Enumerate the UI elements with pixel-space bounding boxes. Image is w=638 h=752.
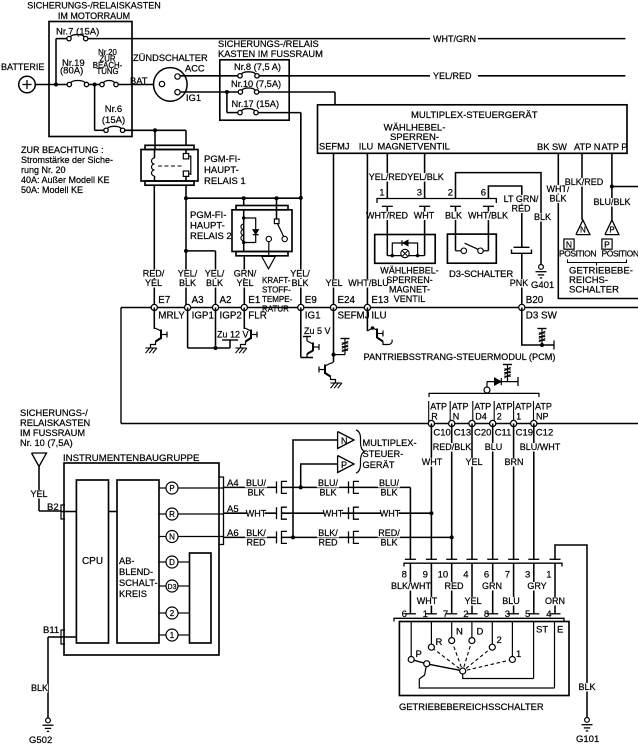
svg-text:RELAIS 1: RELAIS 1 (204, 176, 246, 187)
svg-text:WHT/GRN: WHT/GRN (433, 34, 476, 44)
svg-text:BAT: BAT (130, 76, 148, 86)
svg-text:SICHERUNGS-/: SICHERUNGS-/ (20, 408, 88, 418)
svg-text:ATP: ATP (496, 402, 513, 412)
svg-text:P: P (341, 460, 347, 470)
svg-text:ATP: ATP (452, 402, 469, 412)
svg-text:NP: NP (536, 412, 549, 422)
svg-text:(80A): (80A) (60, 66, 83, 77)
svg-text:ATP: ATP (515, 402, 532, 412)
svg-text:ZUR BEACHTUNG :: ZUR BEACHTUNG : (21, 145, 104, 155)
svg-text:PANTRIEBSSTRANG-STEUERMODUL (P: PANTRIEBSSTRANG-STEUERMODUL (PCM) (364, 352, 556, 362)
svg-text:(15A): (15A) (102, 115, 125, 126)
svg-text:G401: G401 (531, 280, 554, 291)
svg-text:RELAISKASTEN: RELAISKASTEN (20, 418, 90, 428)
svg-text:N: N (341, 436, 348, 446)
svg-text:ATP: ATP (430, 402, 447, 412)
svg-text:C10: C10 (433, 428, 450, 439)
svg-text:RED: RED (318, 538, 338, 548)
svg-text:Zu 12 V: Zu 12 V (217, 330, 249, 340)
svg-text:ORN: ORN (545, 596, 565, 606)
svg-text:GRN/: GRN/ (234, 269, 257, 279)
svg-text:IM FUSSRAUM: IM FUSSRAUM (20, 428, 85, 438)
svg-text:2: 2 (497, 635, 502, 646)
svg-text:YEL: YEL (465, 457, 482, 467)
svg-text:ST: ST (536, 625, 548, 636)
svg-text:GETRIEBEBEREICHSSCHALTER: GETRIEBEBEREICHSSCHALTER (399, 701, 544, 712)
svg-text:IM MOTORRAUM: IM MOTORRAUM (58, 11, 130, 21)
svg-text:MAGNETVENTIL: MAGNETVENTIL (378, 142, 450, 152)
svg-text:YEL/: YEL/ (205, 269, 225, 279)
svg-text:ATP N: ATP N (574, 142, 601, 152)
svg-text:RED/: RED/ (378, 528, 400, 538)
svg-text:Zu 5 V: Zu 5 V (304, 326, 331, 336)
svg-text:P: P (416, 649, 422, 660)
svg-text:E7: E7 (158, 295, 170, 306)
svg-text:PGM-FI-: PGM-FI- (204, 154, 240, 165)
svg-text:WHT: WHT (414, 211, 435, 221)
svg-text:PGM-FI-: PGM-FI- (190, 210, 226, 221)
svg-text:Nr.6: Nr.6 (105, 104, 122, 115)
svg-text:YEL: YEL (325, 278, 342, 288)
svg-text:BLK: BLK (31, 683, 48, 693)
svg-text:N: N (580, 226, 586, 235)
svg-text:BLU/: BLU/ (318, 478, 339, 488)
svg-text:D4: D4 (475, 412, 487, 422)
svg-text:P: P (169, 484, 174, 493)
svg-text:9: 9 (423, 570, 428, 581)
svg-text:WÄHLHEBEL-: WÄHLHEBEL- (380, 266, 439, 276)
svg-text:GERÄT: GERÄT (363, 460, 395, 470)
svg-text:YEL/BLK: YEL/BLK (407, 172, 444, 182)
svg-text:ATP P: ATP P (602, 142, 628, 152)
svg-text:POSITION: POSITION (602, 249, 638, 259)
svg-text:STOFF-: STOFF- (262, 286, 291, 295)
svg-text:BLK/: BLK/ (246, 528, 266, 538)
svg-text:B11: B11 (43, 625, 59, 636)
svg-text:RED/BLK: RED/BLK (433, 442, 472, 452)
svg-text:BLU/: BLU/ (246, 478, 267, 488)
svg-text:SEFMJ: SEFMJ (338, 311, 370, 322)
svg-text:BLK: BLK (578, 682, 595, 692)
svg-text:R: R (436, 637, 443, 648)
svg-text:E13: E13 (371, 295, 389, 306)
svg-text:C19: C19 (516, 428, 533, 439)
svg-text:BLK/: BLK/ (318, 528, 338, 538)
svg-text:ATP: ATP (535, 402, 552, 412)
svg-text:HAUPT-: HAUPT- (190, 221, 225, 232)
svg-text:KRAFT-: KRAFT- (262, 276, 291, 285)
svg-text:IG1: IG1 (305, 311, 321, 322)
svg-text:WHT: WHT (246, 509, 267, 519)
svg-text:40A: Außer Modell KE: 40A: Außer Modell KE (21, 175, 110, 185)
svg-text:BLK/WHT: BLK/WHT (391, 581, 432, 591)
svg-text:N: N (169, 533, 175, 542)
svg-text:ACC: ACC (185, 64, 205, 74)
svg-text:2: 2 (448, 188, 453, 199)
svg-text:STEUER-: STEUER- (363, 449, 404, 459)
svg-text:KASTEN IM FUSSRAUM: KASTEN IM FUSSRAUM (218, 49, 323, 59)
svg-text:A2: A2 (220, 295, 232, 306)
svg-text:7: 7 (505, 570, 510, 581)
svg-text:WHT/RED: WHT/RED (366, 211, 408, 221)
svg-text:GRN: GRN (482, 581, 502, 591)
svg-text:MULTIPLEX-STEUERGERÄT: MULTIPLEX-STEUERGERÄT (411, 110, 538, 121)
svg-text:BATTERIE: BATTERIE (1, 62, 44, 72)
svg-text:SICHERUNGS-/RELAIS: SICHERUNGS-/RELAIS (218, 39, 319, 49)
svg-text:MRLY: MRLY (158, 311, 185, 322)
svg-text:YEL: YEL (236, 278, 253, 288)
svg-text:RED/: RED/ (143, 269, 165, 279)
svg-text:C13: C13 (454, 428, 471, 439)
svg-text:YEL/RED: YEL/RED (433, 71, 472, 81)
svg-text:C11: C11 (495, 428, 512, 439)
svg-text:MAGNET-: MAGNET- (389, 285, 430, 295)
svg-text:BLK: BLK (291, 278, 308, 288)
svg-text:BLK: BLK (247, 488, 264, 498)
svg-text:2: 2 (497, 412, 502, 422)
svg-text:YEL/: YEL/ (178, 269, 198, 279)
svg-text:BLK: BLK (380, 488, 397, 498)
svg-text:BLK: BLK (179, 278, 196, 288)
svg-text:N: N (456, 627, 463, 638)
svg-text:BLK: BLK (445, 211, 462, 221)
svg-text:ZÜNDSCHALTER: ZÜNDSCHALTER (133, 53, 208, 63)
svg-text:B20: B20 (526, 295, 544, 306)
svg-text:WHT: WHT (380, 509, 401, 519)
svg-text:WHT: WHT (422, 457, 443, 467)
svg-text:WHT/BLK: WHT/BLK (468, 211, 508, 221)
svg-text:BLU/WHT: BLU/WHT (520, 442, 561, 452)
svg-text:BLU/: BLU/ (379, 478, 400, 488)
svg-text:YEL: YEL (30, 489, 47, 499)
svg-text:BRN: BRN (504, 457, 523, 467)
svg-text:BLK/RED: BLK/RED (565, 177, 604, 187)
svg-text:rung Nr. 20: rung Nr. 20 (21, 165, 66, 175)
svg-text:1: 1 (516, 649, 521, 660)
svg-text:4: 4 (463, 570, 468, 581)
svg-text:POSITION: POSITION (559, 249, 596, 259)
svg-text:BLK: BLK (206, 278, 223, 288)
svg-text:E: E (557, 625, 563, 636)
svg-text:D3 SW: D3 SW (526, 311, 558, 322)
svg-text:AB-: AB- (119, 556, 135, 566)
svg-text:KREIS: KREIS (119, 589, 147, 599)
svg-text:ILU: ILU (359, 142, 373, 152)
svg-text:YEL: YEL (145, 278, 162, 288)
svg-text:D3: D3 (168, 584, 177, 591)
svg-text:ILU: ILU (371, 311, 386, 322)
svg-text:RELAIS 2: RELAIS 2 (190, 231, 232, 242)
svg-text:IG1: IG1 (186, 93, 201, 103)
svg-text:CPU: CPU (82, 556, 103, 567)
svg-text:WHT/BLU: WHT/BLU (348, 278, 389, 288)
svg-text:SCHALTER: SCHALTER (569, 285, 619, 296)
svg-text:BLK: BLK (549, 194, 566, 204)
svg-text:C20: C20 (474, 428, 491, 439)
svg-text:P: P (609, 226, 614, 235)
svg-text:6: 6 (484, 570, 489, 581)
svg-text:BLK: BLK (380, 538, 397, 548)
svg-text:1: 1 (546, 570, 551, 581)
svg-text:TUNG: TUNG (96, 67, 118, 76)
svg-text:YEL: YEL (464, 596, 481, 606)
svg-text:LT GRN/: LT GRN/ (504, 194, 539, 204)
svg-text:SEFMJ: SEFMJ (319, 142, 349, 152)
svg-text:VENTIL: VENTIL (394, 294, 426, 304)
svg-text:Nr. 10 (7,5A): Nr. 10 (7,5A) (20, 438, 73, 448)
svg-text:Stromstärke der Siche-: Stromstärke der Siche- (21, 155, 113, 165)
svg-text:Nr.10 (7,5A): Nr.10 (7,5A) (231, 79, 281, 89)
svg-text:RED: RED (444, 581, 464, 591)
svg-text:B2: B2 (47, 502, 59, 513)
svg-text:Nr.8 (7,5 A): Nr.8 (7,5 A) (234, 62, 281, 72)
svg-text:IGP2: IGP2 (220, 311, 242, 322)
svg-text:E1: E1 (248, 295, 260, 306)
svg-text:G502: G502 (29, 735, 52, 746)
svg-text:YEL/RED: YEL/RED (369, 172, 408, 182)
svg-text:Nr.17 (15A): Nr.17 (15A) (232, 99, 280, 109)
svg-text:1: 1 (379, 188, 384, 199)
svg-text:GRY: GRY (527, 581, 546, 591)
svg-text:SCHALT-: SCHALT- (119, 578, 158, 588)
svg-text:3: 3 (417, 188, 422, 199)
svg-text:BLU/BLK: BLU/BLK (593, 197, 630, 207)
svg-text:WHT: WHT (323, 509, 344, 519)
svg-text:WHT: WHT (417, 596, 438, 606)
svg-text:MULTIPLEX-: MULTIPLEX- (363, 438, 417, 448)
svg-text:D: D (477, 627, 484, 638)
svg-text:YEL/: YEL/ (290, 269, 310, 279)
svg-text:HAUPT-: HAUPT- (204, 165, 239, 176)
svg-text:2: 2 (170, 609, 175, 618)
svg-text:C12: C12 (536, 428, 553, 439)
svg-text:TEMPE-: TEMPE- (262, 295, 293, 304)
svg-text:G101: G101 (576, 734, 599, 745)
svg-text:SICHERUNGS-/RELAISKASTEN: SICHERUNGS-/RELAISKASTEN (27, 1, 161, 11)
svg-text:3: 3 (525, 570, 530, 581)
svg-text:FLR: FLR (248, 311, 267, 322)
svg-text:BK SW: BK SW (537, 142, 567, 152)
svg-text:6: 6 (481, 188, 486, 199)
svg-text:Nr.7 (15A): Nr.7 (15A) (56, 27, 99, 38)
svg-text:ATP: ATP (474, 402, 491, 412)
svg-text:A3: A3 (192, 295, 205, 306)
svg-text:RED: RED (511, 204, 531, 214)
svg-text:BLK: BLK (534, 212, 551, 222)
svg-text:N: N (453, 412, 460, 422)
svg-text:1: 1 (170, 631, 175, 640)
svg-text:E24: E24 (338, 295, 356, 306)
svg-text:D: D (169, 558, 175, 567)
svg-text:BLU: BLU (485, 442, 503, 452)
svg-text:10: 10 (438, 570, 449, 581)
svg-text:R: R (169, 510, 175, 519)
svg-text:RED: RED (246, 538, 266, 548)
svg-text:SPERREN-: SPERREN- (386, 275, 433, 285)
svg-text:IGP1: IGP1 (192, 311, 214, 322)
svg-text:BLU: BLU (502, 596, 520, 606)
svg-text:50A: Modell KE: 50A: Modell KE (21, 185, 83, 195)
svg-text:BLK: BLK (319, 488, 336, 498)
svg-text:BLEND-: BLEND- (119, 567, 153, 577)
svg-text:E9: E9 (305, 295, 317, 306)
svg-text:D3-SCHALTER: D3-SCHALTER (449, 269, 513, 280)
svg-text:8: 8 (402, 570, 407, 581)
svg-text:1: 1 (516, 412, 521, 422)
